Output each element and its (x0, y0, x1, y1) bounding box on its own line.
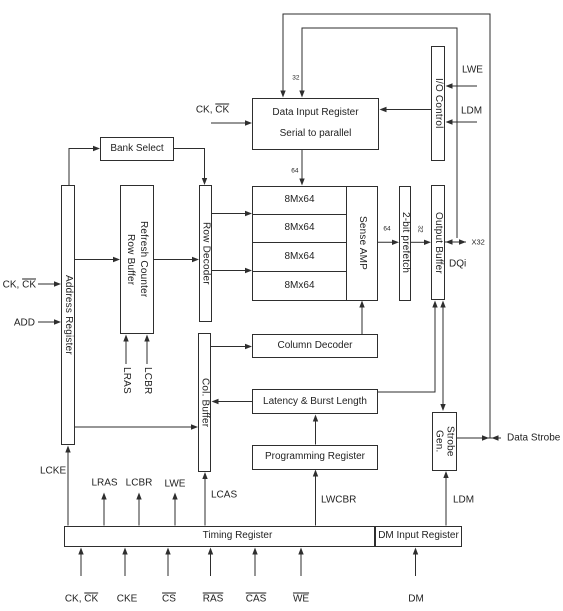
wire: LCAS from Timing Register to Col Buffer (202, 472, 207, 526)
wire: LCKE from Timing Register up to Address Register (65, 446, 70, 526)
wire: CK,CK into Address Register (38, 281, 61, 286)
wire: Data Input Register down to memory array (64) (299, 150, 304, 186)
block: Sense AMP (347, 186, 378, 301)
label: DM bottom (408, 593, 424, 604)
label: WE bottom (293, 593, 309, 604)
label: LDM pad (461, 105, 482, 116)
wire: Col Buffer to Column Decoder (211, 344, 252, 349)
wire: Output Buffer DQ X32 node (445, 239, 466, 244)
block: Timing Register (64, 526, 375, 548)
label: DQi (449, 258, 466, 269)
wire: LWCBR from Timing Register to Programming Register (313, 470, 318, 526)
label: LDM right (453, 494, 474, 505)
label: LRAS bottom (91, 477, 117, 488)
wire: top inner bus from X32 node to Data Input Register top (299, 28, 457, 238)
label: ADD input (14, 318, 35, 329)
wire: Programming Register up to Latency block (313, 415, 318, 445)
block: Address Register (61, 185, 75, 445)
label: RAS bottom (203, 593, 224, 604)
label: LWE pad (462, 65, 483, 76)
label: LCAS (211, 489, 237, 500)
wire: Address Register to Col Buffer (75, 424, 198, 429)
wire: DM input into DM Input Register (413, 548, 418, 577)
label: LCKE (40, 465, 66, 476)
wire: WE input into Timing Register (298, 548, 303, 577)
wire: CK,CK into Data Input Register (211, 120, 252, 125)
wire: Sense AMP to 2-bit prefetch (64) (378, 240, 399, 245)
label: CAS bottom (246, 593, 267, 604)
label: CK,CK bottom (65, 593, 98, 604)
wire: Refresh Counter to Row Decoder (154, 257, 199, 262)
wire: I/O Control to Data Input Register (380, 107, 432, 112)
block: Strobe Gen. (432, 412, 457, 472)
block: Data Input Register U1 (252, 98, 379, 151)
wire: CKE input into Timing Register (122, 548, 127, 577)
label: LWCBR (321, 495, 356, 506)
wire: Address Register up to Bank Select (69, 146, 100, 185)
label: bus width 64 (sense to prefetch) (383, 223, 390, 234)
block: I/O Control (431, 46, 445, 161)
wire: LCBR stub into Refresh Counter (144, 335, 149, 365)
wire: LWE from Timing Register (172, 493, 177, 526)
block: Latency & Burst Length (252, 389, 378, 414)
wire: ADD into Address Register (38, 319, 61, 324)
block: DM Input Register (375, 526, 462, 548)
block: memory bank array 8Mx64 x4 (252, 186, 347, 301)
wire: Latency block to Col Buffer (212, 399, 253, 404)
wire: Bank Select to Row Decoder top (174, 149, 207, 186)
label: LCBR bottom (126, 477, 153, 488)
wire: LDM from DM Input Register to Strobe Gen (443, 471, 448, 526)
label: X32 output (472, 237, 485, 248)
label: CK,CK at Address Register (3, 280, 36, 291)
wire: Row Decoder to array row 1 (212, 211, 252, 216)
block: Row Decoder (199, 185, 212, 322)
label: bus width 64 (to array) (291, 166, 298, 177)
label: CS bottom (162, 593, 176, 604)
wire: Latency block to Output Buffer bottom (378, 301, 438, 393)
label: CKE bottom (117, 593, 138, 604)
label: CK,CK at Data Input Register (196, 104, 229, 115)
label: bus width 32 (top) (292, 72, 299, 83)
wire: Strobe Gen to Data Strobe pad (457, 435, 501, 440)
block: 2-bit prefetch (399, 186, 411, 301)
wire: LWE stub into I/O Control (446, 83, 478, 88)
block: Col. Buffer (198, 333, 211, 472)
block: Bank Select (100, 137, 174, 161)
block: Column Decoder (252, 334, 378, 358)
wire: LRAS stub into Refresh Counter (123, 335, 128, 365)
wire: Address Register to Refresh Counter (75, 257, 120, 262)
wire: LDM stub into I/O Control (446, 119, 478, 124)
wire: Column Decoder up to Sense AMP (359, 301, 364, 335)
block: Programming Register (252, 445, 378, 470)
wire: LCBR from Timing Register (136, 493, 141, 526)
wire: CK,CK input into Timing Register (78, 548, 83, 577)
wire: LRAS from Timing Register (101, 493, 106, 526)
label: LRAS rotated (121, 367, 132, 394)
block: Refresh Counter / Row Buffer (120, 185, 154, 334)
block: Output Buffer (431, 185, 445, 300)
label: LWE bottom (165, 478, 186, 489)
wire: CAS input into Timing Register (252, 548, 257, 577)
wire: Row Decoder to array row 3 (212, 268, 252, 273)
label: LCBR rotated (142, 367, 153, 394)
wire: 2-bit prefetch to Output Buffer (32) (411, 240, 431, 245)
wire: RAS input into Timing Register (208, 548, 213, 577)
wire: top outer bus from right vertical to Data Input Register top (280, 14, 490, 438)
label: bus width 32 (prefetch to output) (416, 223, 423, 234)
label: Data Strobe (507, 433, 560, 444)
wire: Output Buffer / Strobe Gen bidirectional (440, 301, 445, 412)
wire: CS input into Timing Register (165, 548, 170, 577)
